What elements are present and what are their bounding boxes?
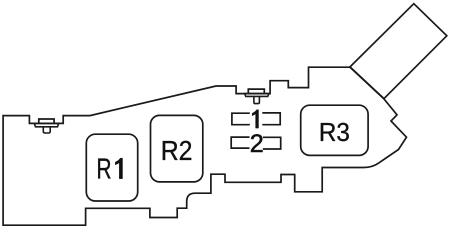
bolt B1 stem xyxy=(43,127,50,133)
fuse 1 right bracket xyxy=(262,113,280,125)
svg-text:R: R xyxy=(96,154,111,186)
fuse 2 left bracket xyxy=(231,137,249,148)
fuse 2 right bracket xyxy=(263,137,281,149)
bolt B2 stem xyxy=(254,96,260,103)
bolt B1 flange xyxy=(34,123,58,126)
svg-text:R2: R2 xyxy=(161,134,193,166)
relay R2 box xyxy=(151,115,203,181)
svg-text:R3: R3 xyxy=(319,119,350,147)
connector bracket (rotated rectangle, top right) xyxy=(350,4,447,99)
bolt B2 cap xyxy=(248,89,264,94)
bolt B1 cap xyxy=(39,119,54,123)
svg-text:2: 2 xyxy=(250,130,264,158)
fuse 1 label xyxy=(252,110,258,128)
fuse 1 left bracket xyxy=(232,113,250,125)
relay R1 box xyxy=(86,134,137,201)
relay R3 box xyxy=(301,105,368,155)
bolt B2 flange xyxy=(245,94,269,97)
fuse box outline xyxy=(3,67,406,225)
